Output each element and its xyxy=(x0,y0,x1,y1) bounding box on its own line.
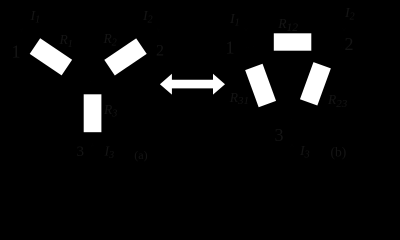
svg-text:1: 1 xyxy=(12,42,21,62)
svg-text:3: 3 xyxy=(275,125,284,145)
wire terminal 3 lead xyxy=(92,132,94,163)
current arrow I3 right xyxy=(289,142,295,148)
resistor R3 body xyxy=(84,94,102,132)
svg-text:(b): (b) xyxy=(331,145,347,160)
wire vertex 2 leads xyxy=(312,10,345,66)
resistor R2 body xyxy=(104,38,146,75)
current arrow I2 xyxy=(156,27,162,33)
transform arrow xyxy=(160,74,225,95)
resistor R23 body xyxy=(300,62,331,105)
wire vertex 1 leads xyxy=(246,10,274,69)
current arrow I1 right xyxy=(243,27,249,33)
resistor R31 body xyxy=(245,64,276,107)
svg-text:1: 1 xyxy=(226,38,235,58)
wire center node Y xyxy=(66,67,110,94)
wire vertex 3 leads xyxy=(267,101,309,162)
svg-text:(a): (a) xyxy=(134,148,147,162)
svg-text:2: 2 xyxy=(345,34,354,54)
resistor R1 body xyxy=(30,38,72,75)
resistor R12 body xyxy=(274,33,312,50)
current arrow I3 xyxy=(90,142,96,148)
wire terminal 1 lead xyxy=(21,10,35,46)
svg-text:2: 2 xyxy=(156,43,164,60)
wire terminal 2 lead xyxy=(141,10,159,46)
current arrow I1 xyxy=(18,27,24,33)
svg-text:3: 3 xyxy=(77,144,85,160)
current arrow I2 right xyxy=(341,27,347,33)
